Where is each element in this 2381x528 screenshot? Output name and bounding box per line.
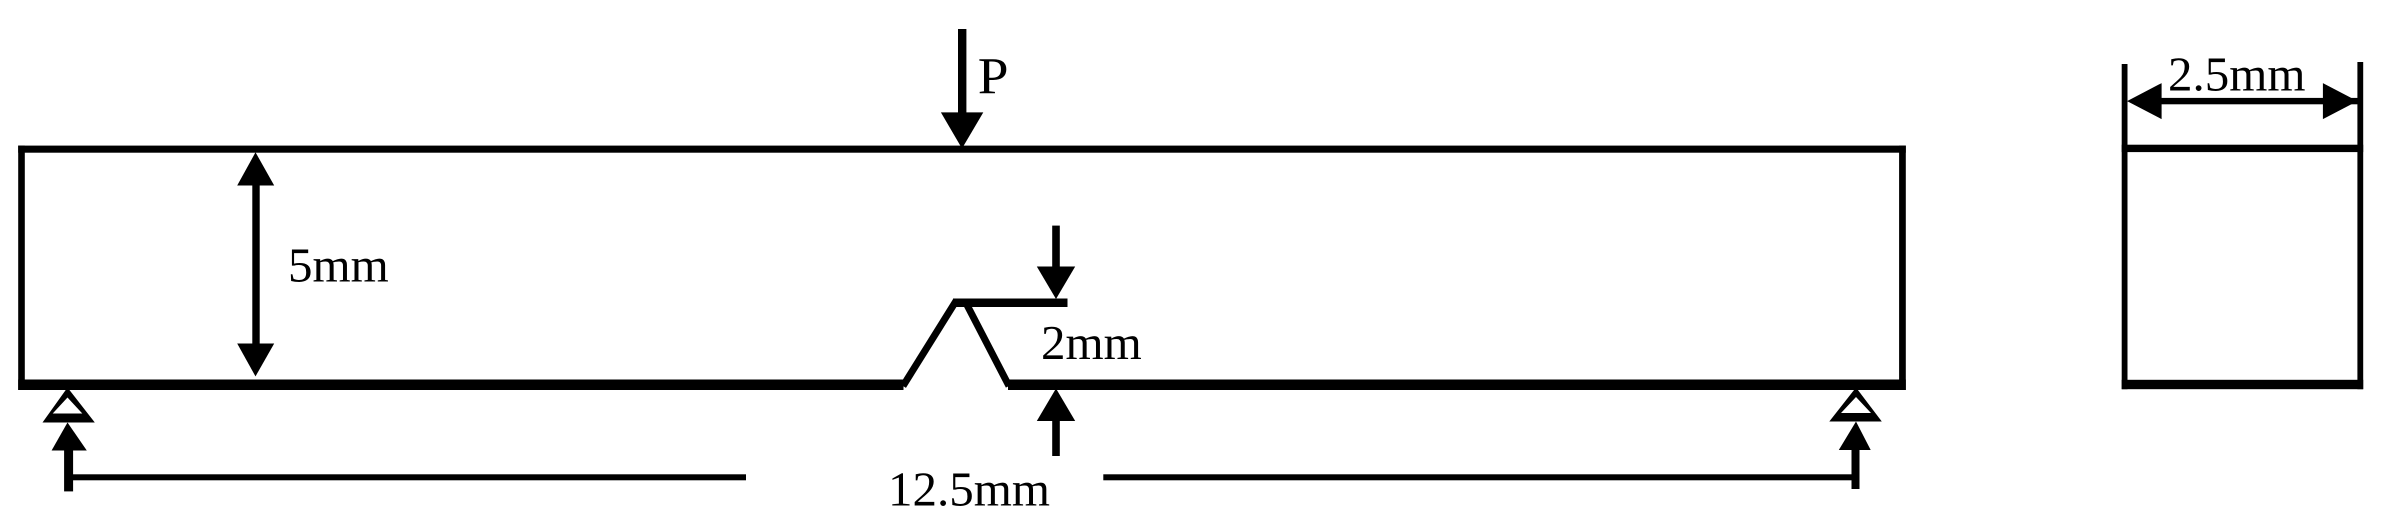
right support reaction arrow head (1839, 422, 1871, 451)
section right side line (2357, 62, 2363, 389)
beam outline right edge (1899, 146, 1906, 390)
left support reaction arrow head (52, 423, 87, 451)
12.5mm dimension line right segment (1103, 474, 1856, 480)
12.5mm dimension line left segment (67, 474, 746, 480)
left support triangle (43, 388, 95, 423)
2mm upper arrow shaft (1052, 226, 1060, 276)
beam outline left edge (18, 146, 25, 390)
svg-text:2mm: 2mm (1041, 315, 1142, 370)
left support reaction arrow shaft (64, 450, 73, 491)
svg-text:2.5mm: 2.5mm (2168, 47, 2305, 102)
beam bottom edge right segment (1008, 380, 1906, 391)
load arrow P head (941, 112, 983, 148)
notch right flank (967, 304, 1010, 386)
right support triangle (1829, 388, 1882, 422)
svg-text:P: P (978, 47, 1009, 105)
section left side line (2122, 64, 2128, 389)
svg-text:12.5mm: 12.5mm (888, 462, 1050, 517)
2.5mm dimension arrow left head (2127, 83, 2162, 119)
2mm upper arrow head (1037, 267, 1075, 300)
2.5mm dimension arrow right head (2323, 83, 2358, 119)
5mm dimension arrow bottom head (237, 344, 274, 377)
2.5mm dimension arrow shaft (2160, 98, 2360, 104)
section bottom edge (2122, 380, 2364, 389)
5mm dimension arrow top head (237, 152, 274, 185)
section top edge (2122, 145, 2364, 152)
beam bottom edge left segment (18, 380, 903, 391)
right support reaction arrow shaft (1852, 450, 1860, 489)
load arrow P shaft (958, 29, 966, 124)
notch left flank (903, 301, 956, 386)
notch flat top / 2mm extension line (953, 299, 1068, 308)
2mm lower arrow shaft (1052, 420, 1060, 456)
beam outline top edge (18, 146, 1906, 153)
5mm dimension arrow shaft (252, 170, 259, 360)
svg-text:5mm: 5mm (288, 238, 389, 293)
2mm lower arrow head (1037, 389, 1075, 422)
